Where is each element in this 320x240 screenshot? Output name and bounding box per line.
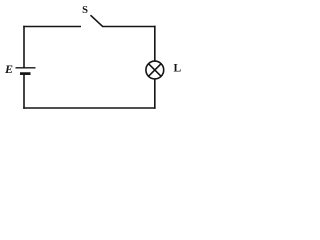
wire top-right horizontal: [103, 26, 156, 28]
wire top-left horizontal: [23, 26, 81, 28]
battery E long plate: [16, 67, 36, 69]
wire right vertical upper: [154, 26, 156, 62]
wire right vertical lower: [154, 79, 156, 109]
switch S blade: [91, 15, 104, 27]
lamp L cross stroke 2: [149, 64, 161, 76]
svg-text:S: S: [82, 5, 88, 16]
wire left vertical lower: [23, 74, 25, 109]
battery E short plate: [20, 72, 31, 75]
svg-text:L: L: [174, 63, 182, 75]
lamp L cross stroke 1: [149, 64, 161, 76]
lamp L circle: [146, 61, 164, 79]
wire left vertical upper: [23, 26, 25, 68]
svg-text:E: E: [4, 62, 13, 76]
wire bottom horizontal: [23, 107, 155, 109]
